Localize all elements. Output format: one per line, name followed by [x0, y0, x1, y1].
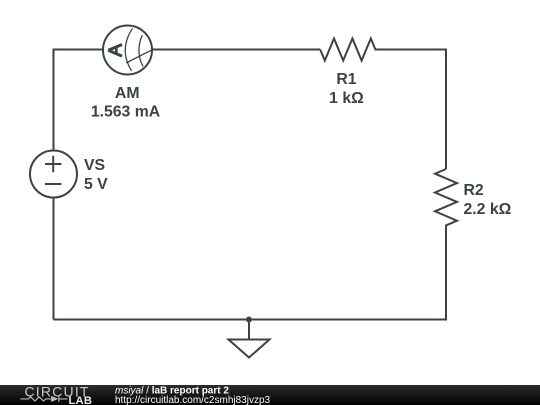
svg-text:5 V: 5 V — [84, 176, 108, 193]
svg-text:1 kΩ: 1 kΩ — [329, 90, 364, 107]
svg-text:1.563 mA: 1.563 mA — [91, 103, 160, 120]
svg-text:http://circuitlab.com/c2smhj83: http://circuitlab.com/c2smhj83jvzp3 — [115, 395, 271, 405]
svg-text:AM: AM — [115, 85, 140, 102]
svg-text:R1: R1 — [336, 71, 356, 88]
svg-text:2.2 kΩ: 2.2 kΩ — [464, 201, 512, 218]
svg-text:LAB: LAB — [69, 395, 93, 405]
svg-text:R2: R2 — [464, 182, 484, 199]
svg-text:VS: VS — [84, 157, 105, 174]
